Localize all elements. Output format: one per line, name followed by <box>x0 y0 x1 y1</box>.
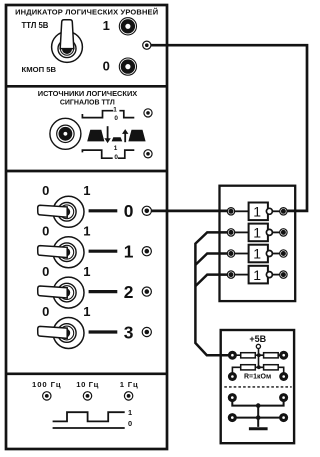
svg-text:1: 1 <box>114 145 118 152</box>
svg-text:0: 0 <box>114 154 118 161</box>
svg-text:ТТЛ 5В: ТТЛ 5В <box>22 21 49 30</box>
svg-text:1: 1 <box>253 225 261 241</box>
svg-text:ИНДИКАТОР ЛОГИЧЕСКИХ УРОВНЕЙ: ИНДИКАТОР ЛОГИЧЕСКИХ УРОВНЕЙ <box>15 8 158 17</box>
svg-text:0: 0 <box>114 115 118 122</box>
svg-text:0: 0 <box>42 183 49 198</box>
svg-text:1: 1 <box>113 107 117 114</box>
svg-text:0: 0 <box>42 304 49 319</box>
svg-text:0: 0 <box>124 201 134 221</box>
svg-text:0: 0 <box>42 264 49 279</box>
svg-text:1: 1 <box>253 267 261 283</box>
svg-text:2: 2 <box>124 282 134 302</box>
svg-text:1: 1 <box>83 304 90 319</box>
svg-text:100 Гц: 100 Гц <box>32 380 61 389</box>
svg-text:3: 3 <box>124 322 134 342</box>
svg-text:1: 1 <box>83 223 90 238</box>
svg-text:0: 0 <box>42 223 49 238</box>
svg-text:1 Гц: 1 Гц <box>120 380 138 389</box>
svg-text:1: 1 <box>83 264 90 279</box>
svg-text:1: 1 <box>83 183 90 198</box>
svg-text:10 Гц: 10 Гц <box>76 380 98 389</box>
svg-text:1: 1 <box>103 18 110 33</box>
svg-text:КМОП 5В: КМОП 5В <box>22 65 57 74</box>
svg-text:0: 0 <box>103 59 110 74</box>
svg-text:ИСТОЧНИКИ ЛОГИЧЕСКИХ: ИСТОЧНИКИ ЛОГИЧЕСКИХ <box>38 89 138 98</box>
svg-text:R=1кОм: R=1кОм <box>244 373 271 380</box>
svg-text:1: 1 <box>253 246 261 262</box>
svg-text:+5В: +5В <box>249 334 266 344</box>
svg-text:1: 1 <box>253 204 261 220</box>
svg-text:СИГНАЛОВ ТТЛ: СИГНАЛОВ ТТЛ <box>60 99 115 106</box>
svg-text:1: 1 <box>124 242 134 262</box>
svg-text:1: 1 <box>128 408 132 417</box>
svg-text:0: 0 <box>128 419 132 428</box>
